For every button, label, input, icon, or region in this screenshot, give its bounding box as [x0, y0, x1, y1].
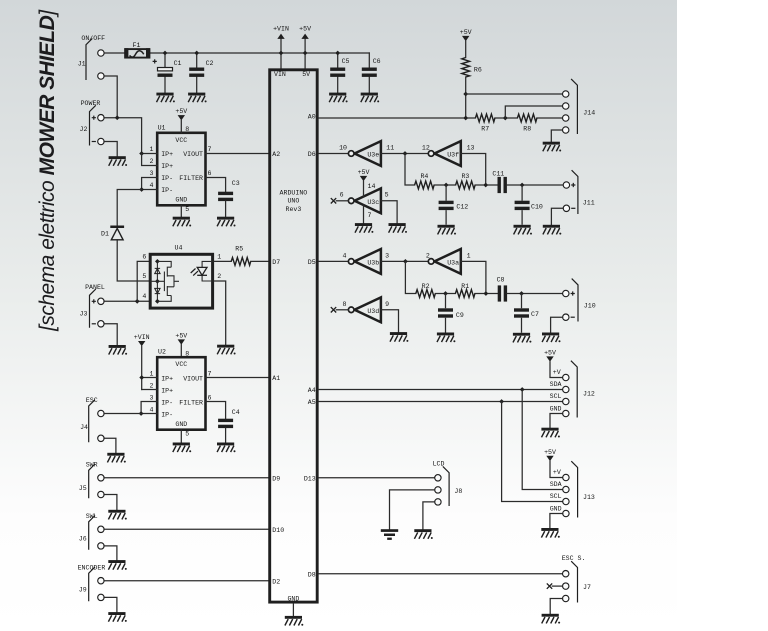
wire C6 stem bottom: [368, 77, 370, 93]
junction U1 pin4: [139, 187, 144, 192]
svg-text:GND: GND: [550, 505, 562, 512]
svg-text:5: 5: [385, 191, 389, 198]
svg-text:U4: U4: [175, 245, 183, 252]
svg-text:D6: D6: [308, 151, 316, 158]
svg-text:+5V: +5V: [358, 169, 370, 176]
svg-text:R5: R5: [235, 245, 243, 252]
connector J8 LCD: [433, 460, 463, 506]
svg-text:D7: D7: [272, 259, 280, 266]
svg-text:+V: +V: [553, 469, 561, 476]
wire J2+ to U1 pins: [104, 118, 142, 154]
wire J6 pin2 to ground: [104, 546, 117, 560]
svg-text:R3: R3: [461, 173, 469, 180]
wire U2 pin4 stub: [141, 413, 157, 415]
diode D1: [101, 226, 124, 240]
wire U1 pin3 link: [142, 178, 158, 190]
svg-text:6: 6: [340, 191, 344, 198]
svg-text:+VIN: +VIN: [134, 334, 150, 341]
wire node down to R4: [405, 154, 415, 186]
wire J1 to F1: [104, 52, 125, 54]
svg-text:VIOUT: VIOUT: [183, 151, 203, 158]
svg-text:SCL: SCL: [550, 493, 562, 500]
capacitor C1: [153, 59, 182, 77]
svg-text:D2: D2: [272, 578, 280, 585]
wire U1 pin1 stub: [142, 153, 158, 155]
svg-text:R2: R2: [422, 283, 430, 290]
svg-text:J3: J3: [80, 311, 88, 318]
capacitor C8: [497, 277, 507, 302]
ground J9: [108, 612, 127, 622]
svg-text:J7: J7: [583, 584, 591, 591]
inverter U3f: [422, 141, 475, 166]
wire J8 pin3 to ground: [423, 502, 435, 529]
ground C1: [156, 93, 175, 103]
svg-text:3: 3: [150, 394, 154, 401]
svg-text:IP-: IP-: [161, 400, 173, 407]
wire J3- to ground: [104, 324, 117, 345]
junction U4 pin4: [135, 299, 140, 304]
wire +5V to J13 +V: [550, 461, 563, 477]
ground C2: [188, 93, 207, 103]
capacitor C4: [218, 409, 240, 428]
ground C9: [437, 333, 456, 343]
svg-text:+5V: +5V: [544, 350, 556, 357]
junction SDA tap: [520, 387, 525, 392]
svg-text:A0: A0: [308, 114, 316, 121]
svg-text:R6: R6: [474, 67, 482, 74]
svg-text:SWR: SWR: [86, 462, 98, 469]
svg-text:ESC: ESC: [86, 397, 98, 404]
fuse F1: [124, 42, 150, 59]
connector J7 ESC S.: [562, 555, 591, 603]
junction SCL tap: [499, 399, 504, 404]
resistor R2: [416, 283, 436, 297]
svg-text:IP+: IP+: [161, 388, 173, 395]
svg-text:D5: D5: [308, 259, 316, 266]
capacitor C2: [189, 60, 213, 77]
wire C3 to ground: [225, 201, 227, 217]
wire U3c pin7 to ground: [363, 205, 365, 223]
svg-text:C3: C3: [232, 180, 240, 187]
svg-text:GND: GND: [175, 197, 187, 204]
wire J9 to D2: [104, 580, 268, 582]
svg-text:J14: J14: [583, 110, 595, 117]
svg-text:1: 1: [150, 146, 154, 153]
wire J3+ to U4 pin4: [104, 300, 149, 302]
svg-text:+V: +V: [553, 369, 561, 376]
ground J8 pin3: [414, 529, 433, 539]
svg-text:J12: J12: [583, 390, 595, 397]
svg-text:U3d: U3d: [367, 308, 379, 315]
junction U1 pin1: [139, 151, 144, 156]
svg-text:ON/OFF: ON/OFF: [81, 35, 105, 42]
svg-text:5: 5: [185, 430, 189, 437]
svg-text:Rev3: Rev3: [285, 206, 301, 213]
capacitor C12: [439, 185, 469, 225]
wire C2 stem bottom: [196, 77, 198, 93]
svg-text:IP+: IP+: [161, 376, 173, 383]
svg-text:A1: A1: [272, 375, 280, 382]
wire U2 VCC: [180, 345, 182, 358]
svg-text:4: 4: [142, 293, 146, 300]
junction +5V rail: [303, 51, 308, 56]
ground U4 pin2: [217, 345, 236, 355]
wire R4 to R3: [434, 184, 456, 186]
wire U1 GND: [180, 205, 182, 216]
ground J2-: [109, 156, 128, 166]
junction C7 tap: [519, 291, 524, 296]
wire U1 VIOUT to A2: [206, 153, 269, 155]
wire U4 pin6 link: [137, 261, 149, 301]
resistor R6: [462, 58, 482, 78]
svg-text:C8: C8: [497, 277, 505, 284]
wire C6 stem top: [368, 53, 370, 68]
wire D5 to U3b: [319, 260, 349, 262]
ground C6: [361, 93, 380, 103]
svg-text:D8: D8: [308, 571, 316, 578]
wire C8 to J10+: [507, 293, 562, 295]
svg-text:U3c: U3c: [367, 199, 379, 206]
connector J4 ESC: [80, 397, 104, 442]
svg-text:R4: R4: [420, 173, 428, 180]
svg-text:J8: J8: [454, 488, 462, 495]
power +VIN: [273, 26, 289, 39]
wire U4 pin2 to ground: [214, 281, 226, 345]
IC U4: [142, 245, 221, 308]
wire +5V drop to Arduino 5V: [304, 39, 306, 69]
wire C4 to ground: [225, 428, 227, 442]
wire SDA tap down to J13: [522, 390, 563, 490]
wire U3e out to U3f: [381, 153, 428, 155]
svg-text:D10: D10: [272, 527, 284, 534]
svg-text:POWER: POWER: [81, 100, 101, 107]
svg-text:8: 8: [185, 126, 189, 133]
power +5V U2: [175, 333, 187, 345]
capacitor C5: [330, 58, 349, 77]
wire +5V to J12 +V: [550, 362, 563, 378]
svg-text:7: 7: [208, 370, 212, 377]
wire U2 pin2 stub: [142, 389, 158, 391]
svg-text:A5: A5: [308, 399, 316, 406]
wire D1 to U4 pin5: [117, 240, 149, 281]
svg-text:SDA: SDA: [550, 381, 562, 388]
ground J12: [541, 428, 560, 438]
svg-text:C9: C9: [456, 312, 464, 319]
wire +VIN to U2 pins1-2: [141, 346, 143, 389]
wire U2 GND: [180, 430, 182, 443]
wire D6 to U3e: [319, 153, 349, 155]
svg-text:7: 7: [208, 146, 212, 153]
wire C11 to J11+: [507, 184, 563, 186]
no-connect U3d pin8: [331, 307, 349, 312]
svg-text:C10: C10: [531, 204, 543, 211]
wire U1 pin4 stub: [142, 189, 158, 191]
junction J2+/J1 net: [115, 115, 120, 120]
wire J5 pin2 to ground: [104, 495, 117, 510]
wire U2 VIOUT to A1: [206, 377, 269, 379]
power +5V U1: [175, 108, 187, 120]
wire D13 to J8: [319, 477, 435, 479]
svg-text:U3b: U3b: [367, 260, 379, 267]
svg-text:J10: J10: [584, 302, 596, 309]
svg-text:IP-: IP-: [161, 412, 173, 419]
power +5V R6: [460, 29, 472, 41]
svg-text:6: 6: [208, 170, 212, 177]
svg-text:5V: 5V: [302, 71, 310, 78]
inverter U3c: [340, 183, 389, 219]
wire R2 to R1: [435, 293, 455, 295]
wire U3c pin5 to ground: [381, 201, 397, 223]
junction C5 rail: [335, 51, 340, 56]
wire C1 stem bottom: [164, 77, 166, 93]
connector J5 SWR: [79, 462, 104, 499]
ground C12: [438, 225, 457, 235]
svg-text:1: 1: [150, 370, 154, 377]
svg-text:FILTER: FILTER: [179, 175, 203, 182]
svg-text:ESC S.: ESC S.: [562, 555, 586, 562]
capacitor C7: [514, 294, 539, 333]
svg-text:+VIN: +VIN: [273, 26, 289, 33]
junction R2/R1/C9: [443, 291, 448, 296]
wire +5V to R6: [465, 41, 467, 57]
wire SCL tap down to J13: [502, 402, 563, 502]
wire U1 VCC: [180, 120, 182, 132]
capacitor C10: [515, 185, 543, 225]
svg-text:ARDUINO: ARDUINO: [280, 189, 308, 196]
capacitor C6: [362, 58, 381, 77]
svg-text:GND: GND: [175, 421, 187, 428]
svg-text:1: 1: [217, 253, 221, 260]
svg-text:C2: C2: [206, 60, 214, 67]
wire VIN rail F1 to C6: [150, 52, 370, 54]
junction U3b/U3a node: [403, 259, 408, 264]
svg-text:IP-: IP-: [161, 175, 173, 182]
wire C5 stem bottom: [337, 77, 339, 93]
ground J10-: [542, 333, 561, 343]
connector J2 POWER: [80, 100, 105, 146]
svg-text:C6: C6: [373, 58, 381, 65]
svg-text:12: 12: [422, 145, 430, 152]
svg-text:F1: F1: [133, 42, 141, 49]
wire U3a out down: [461, 261, 486, 293]
junction R4/R3/C12: [444, 183, 449, 188]
svg-text:+5V: +5V: [299, 26, 311, 33]
svg-text:5: 5: [185, 206, 189, 213]
svg-text:9: 9: [385, 301, 389, 308]
svg-text:R1: R1: [461, 283, 469, 290]
wire J5 to D9: [104, 477, 268, 479]
wire J13 GND: [550, 514, 563, 529]
U4 internal MOSFET pair: [150, 261, 179, 301]
resistor R8: [517, 114, 537, 132]
connector J12: [550, 361, 595, 418]
svg-text:D9: D9: [272, 475, 280, 482]
svg-text:IP-: IP-: [161, 187, 173, 194]
svg-text:4: 4: [150, 182, 154, 189]
svg-text:C7: C7: [531, 311, 539, 318]
wire J12 GND: [550, 414, 563, 428]
svg-text:D1: D1: [101, 230, 109, 237]
junction +VIN/VIN rail: [279, 51, 284, 56]
ground Arduino: [285, 616, 304, 626]
svg-text:U2: U2: [158, 349, 166, 356]
wire R3 to C11: [475, 184, 497, 186]
wire J1 pin2 down to J2+: [104, 76, 117, 118]
svg-text:GND: GND: [550, 405, 562, 412]
svg-text:FILTER: FILTER: [179, 400, 203, 407]
svg-text:J4: J4: [80, 424, 88, 431]
svg-text:U3a: U3a: [447, 260, 459, 267]
svg-text:PANEL: PANEL: [85, 284, 105, 291]
svg-text:1: 1: [467, 253, 471, 260]
svg-text:J11: J11: [583, 199, 595, 206]
wire U1 pin4 to D1: [117, 190, 141, 227]
power +5V U3c: [358, 169, 370, 181]
power +VIN U2: [134, 334, 150, 346]
wire C5 stem top: [337, 53, 339, 68]
svg-text:U3f: U3f: [447, 152, 459, 159]
svg-text:+5V: +5V: [460, 29, 472, 36]
wire R7 to R8: [495, 117, 518, 119]
wire J4 pin1 to U2 pin4: [104, 413, 141, 415]
svg-text:VIN: VIN: [274, 71, 286, 78]
svg-text:SDA: SDA: [550, 481, 562, 488]
ground GND J8 pin2: [381, 529, 398, 540]
wire U3c pin14: [363, 181, 365, 196]
wire J11- to ground: [551, 208, 563, 225]
wire node down to R2: [405, 261, 415, 293]
wire R5 to D7: [251, 260, 269, 262]
junction R6/J14 pin1: [463, 92, 468, 97]
IC U2: [150, 349, 212, 438]
svg-text:VCC: VCC: [175, 137, 187, 144]
ground C3: [217, 217, 236, 227]
ground C7: [513, 333, 532, 343]
inverter U3b: [343, 249, 390, 274]
wire J4 pin2 to ground: [104, 438, 116, 453]
inverter U3e: [339, 141, 394, 166]
svg-text:8: 8: [185, 350, 189, 357]
connector J13: [550, 461, 595, 517]
svg-text:13: 13: [467, 145, 475, 152]
wire U3b out to U3a: [381, 260, 428, 262]
svg-text:VCC: VCC: [175, 361, 187, 368]
svg-text:GND: GND: [287, 596, 299, 603]
svg-text:LCD: LCD: [433, 460, 445, 467]
wire J10- to ground: [551, 317, 563, 332]
wire D8 to J7: [319, 573, 563, 575]
wire U2 pin1 stub: [142, 377, 158, 379]
wire to J14 pin2: [505, 106, 562, 118]
ground U2: [173, 443, 192, 453]
svg-text:U3e: U3e: [367, 152, 379, 159]
connector J10: [563, 279, 596, 322]
no-connect J7 pin2: [547, 583, 563, 588]
svg-text:C11: C11: [492, 170, 504, 177]
svg-text:14: 14: [368, 183, 376, 190]
wire A4 SDA: [319, 389, 563, 391]
U4 internal zener pair: [155, 259, 160, 304]
IC ARDUINO UNO Rev3: [270, 70, 318, 603]
svg-text:2: 2: [150, 382, 154, 389]
no-connect U3c pin6: [331, 198, 349, 203]
svg-text:[schema elettrico MOWER SHIELD: [schema elettrico MOWER SHIELD]: [36, 9, 59, 332]
svg-text:4: 4: [343, 253, 347, 260]
connector J11: [563, 170, 595, 214]
svg-text:R7: R7: [481, 125, 489, 132]
power +5V: [299, 26, 311, 39]
wire +VIN drop to Arduino VIN: [280, 39, 282, 69]
svg-text:IP+: IP+: [161, 163, 173, 170]
ground U3c pin7: [355, 223, 374, 233]
capacitor C3: [218, 180, 240, 201]
svg-text:R8: R8: [523, 125, 531, 132]
ground U3c pin5: [389, 223, 408, 233]
wire J14 pin4 to ground: [551, 130, 562, 142]
svg-text:C12: C12: [456, 204, 468, 211]
svg-text:J1: J1: [78, 61, 86, 68]
wire A0 to R7: [319, 117, 476, 119]
wire R6 to A0 node: [465, 77, 467, 118]
ground J14: [543, 142, 562, 152]
wire C1 stem top: [164, 53, 166, 68]
wire U2 pin3 link: [141, 402, 157, 414]
wire U1 FILTER to C3: [206, 178, 226, 192]
svg-text:ENCODER: ENCODER: [78, 564, 106, 571]
wire J7 pin3 to ground: [550, 599, 562, 614]
svg-text:VIOUT: VIOUT: [183, 376, 203, 383]
title [schema elettrico MOWER SHIELD]: [36, 9, 59, 332]
connector J14: [563, 79, 596, 134]
wire R8 to J14 pin3: [537, 117, 563, 119]
svg-text:A2: A2: [272, 151, 280, 158]
wire J2- to ground: [104, 142, 117, 157]
ground J7: [542, 614, 561, 624]
svg-text:3: 3: [150, 170, 154, 177]
IC U1: [150, 124, 212, 213]
ground J5: [108, 510, 127, 520]
svg-text:J5: J5: [79, 485, 87, 492]
inverter U3a: [426, 249, 471, 274]
svg-text:+5V: +5V: [544, 449, 556, 456]
svg-text:10: 10: [339, 145, 347, 152]
wire U3d out to ground: [381, 310, 399, 332]
svg-text:2: 2: [217, 273, 221, 280]
junction A0/R7: [463, 116, 468, 121]
junction C1/VIN rail: [163, 51, 168, 56]
capacitor C11: [492, 170, 507, 193]
ground J13: [541, 528, 560, 538]
wire node to J14 pin1: [466, 93, 563, 95]
svg-text:2: 2: [150, 158, 154, 165]
wire R1 to C8: [475, 293, 498, 295]
junction R3/C11/U3f: [483, 183, 488, 188]
wire J6 to D10: [104, 528, 268, 530]
ground C5: [329, 93, 348, 103]
wire J8 pin2 to GND symbol: [390, 490, 435, 529]
svg-text:IP+: IP+: [161, 151, 173, 158]
svg-text:+5V: +5V: [175, 333, 187, 340]
connector J6 SWL: [79, 513, 104, 550]
svg-text:D13: D13: [304, 475, 316, 482]
ground U3d: [390, 332, 409, 342]
svg-text:6: 6: [142, 253, 146, 260]
ground J11-: [543, 225, 562, 235]
wire U2 FILTER to C4: [206, 402, 226, 419]
svg-text:U1: U1: [158, 124, 166, 131]
wire Arduino GND: [292, 604, 294, 616]
svg-text:+5V: +5V: [175, 108, 187, 115]
